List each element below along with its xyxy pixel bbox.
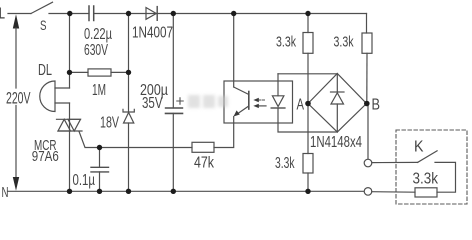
opto transistor collector diagonal <box>234 87 249 95</box>
node gate-0.1u <box>97 145 102 150</box>
resistor 3.3k upper-A <box>303 33 313 54</box>
wire gate line <box>100 147 193 149</box>
svg-text:A: A <box>297 97 305 114</box>
svg-text:47k: 47k <box>194 155 215 172</box>
svg-text:3.3k: 3.3k <box>413 171 439 188</box>
wire node A to lower resistor <box>307 104 309 154</box>
wire triac cathode to N <box>69 131 71 191</box>
wire 1M node to zener <box>128 72 130 112</box>
wire 1M right lead <box>111 71 129 73</box>
wire 220V source <box>15 28 17 178</box>
switch S blade <box>31 2 53 13</box>
neon lamp DL top electrode <box>55 87 70 89</box>
capacitor C1 0.22u plate left <box>88 6 90 21</box>
triac MCR97A6 triangle down <box>68 119 81 131</box>
node A column rail <box>305 11 310 16</box>
node N-zener <box>126 189 131 194</box>
wire B column top <box>366 14 368 34</box>
svg-text:3.3k: 3.3k <box>334 35 355 51</box>
optocoupler U1 box <box>224 81 293 123</box>
capacitor 0.1u plate top <box>91 166 109 168</box>
node N-0.1u <box>97 189 102 194</box>
neon lamp DL envelope <box>40 81 55 112</box>
opto light arrow lower <box>258 105 267 107</box>
bridge inner diode lead top <box>336 74 338 93</box>
triac MCR97A6 top bar <box>57 118 81 120</box>
svg-text:3.3k: 3.3k <box>275 155 295 172</box>
source arrow up <box>13 14 19 28</box>
neon lamp DL bottom electrode <box>55 102 70 104</box>
resistor 3.3k lower-A <box>303 154 313 174</box>
svg-text:1M: 1M <box>92 82 106 99</box>
resistor 3.3k relay <box>415 188 437 197</box>
svg-text:L: L <box>0 6 5 23</box>
wire node B down to terminal <box>367 104 368 160</box>
svg-text:97A6: 97A6 <box>32 149 59 165</box>
wire top rail mid <box>94 13 367 15</box>
relay dashed box K <box>396 130 467 204</box>
wire relay resistor to terminal <box>372 191 415 194</box>
bridge rectifier diamond <box>308 74 367 133</box>
node N-200u <box>171 189 176 194</box>
wire zener to N rail <box>128 123 130 191</box>
wire top rail <box>49 13 89 15</box>
svg-text:S: S <box>40 17 47 33</box>
svg-text:1N4148x4: 1N4148x4 <box>310 134 362 151</box>
wire column x128 top <box>128 14 130 73</box>
node DL-1M <box>67 70 72 75</box>
svg-text:B: B <box>372 97 381 114</box>
triac MCR97A6 triangle up <box>58 119 71 131</box>
svg-text:18V: 18V <box>100 115 119 132</box>
svg-text:1N4007: 1N4007 <box>132 25 173 42</box>
triac gate lead <box>79 131 100 147</box>
capacitor 0.1u plate bottom <box>91 171 109 173</box>
wire emitter lead <box>233 117 235 124</box>
wire B column <box>366 53 368 103</box>
opto transistor base bar <box>248 92 250 110</box>
wire column x173 top <box>172 14 174 109</box>
source arrow down <box>13 177 19 191</box>
capacitor C1 0.22u plate right <box>93 6 95 21</box>
svg-text:630V: 630V <box>84 42 108 59</box>
opto transistor emitter arrowhead <box>234 110 240 116</box>
wire A column top <box>307 14 309 33</box>
resistor 1M <box>88 69 111 76</box>
wire opto collector column <box>233 14 235 88</box>
diode D1 1N4007 cathode bar <box>156 7 158 21</box>
capacitor 200u plate bottom <box>166 112 183 114</box>
zener diode 18V triangle <box>124 113 134 124</box>
svg-text:3.3k: 3.3k <box>276 35 297 51</box>
resistor 3.3k upper-B <box>362 33 372 53</box>
wire lower resistor to N <box>307 173 309 191</box>
opto light arrow upper <box>259 99 265 101</box>
node D1-out <box>171 11 176 16</box>
svg-text:0.1µ: 0.1µ <box>73 172 96 189</box>
relay contact K blade <box>418 151 438 163</box>
svg-text:35V: 35V <box>142 95 163 112</box>
wire DL node to top electrode <box>69 72 71 88</box>
triac vertical lead <box>69 119 71 131</box>
opto LED anode lead <box>277 74 279 96</box>
resistor 47k <box>192 142 214 152</box>
faint watermark <box>188 95 228 108</box>
svg-text:N: N <box>2 184 9 201</box>
capacitor 200u plate top <box>166 107 183 109</box>
svg-text:220V: 220V <box>6 89 31 108</box>
zener diode 18V cathode bar <box>123 109 134 112</box>
opto transistor emitter diagonal <box>236 106 249 115</box>
terminal circle lower <box>364 188 372 196</box>
wire 200u to N rail <box>172 113 174 191</box>
wire contact fixed side <box>435 162 456 192</box>
wire column x69 from rail to DL node <box>69 14 71 73</box>
wire LED anode to bridge top <box>278 73 337 75</box>
svg-text:DL: DL <box>38 62 52 79</box>
bridge inner diode triangle <box>331 93 344 104</box>
svg-text:0.22µ: 0.22µ <box>84 26 112 43</box>
node C1-D1 <box>126 11 131 16</box>
opto LED triangle <box>272 96 284 107</box>
triac MCR97A6 bottom bar <box>58 130 82 132</box>
capacitor 200u plus sign <box>177 98 183 104</box>
wire 3.3k to node A <box>307 53 309 103</box>
node N-triac <box>67 189 72 194</box>
bridge inner diode lead bottom <box>336 104 338 132</box>
wire 1M left lead <box>70 71 89 73</box>
terminal circle upper <box>364 159 372 167</box>
opto LED cathode bar <box>271 107 285 109</box>
node A <box>305 101 311 107</box>
wire 0.1u to N rail <box>99 172 101 191</box>
wire terminal to contact <box>372 161 418 163</box>
wire L lead <box>8 13 31 15</box>
wire DL to triac <box>69 103 71 119</box>
node N-3.3k <box>305 189 310 194</box>
wire LED cathode to bridge bottom <box>278 108 337 132</box>
node S-C1 <box>67 11 72 16</box>
diode D1 1N4007 triangle <box>146 8 156 20</box>
wire 0.1u top lead <box>99 148 101 168</box>
wire N bottom rail <box>8 190 364 192</box>
svg-text:K: K <box>414 139 424 156</box>
node B <box>364 101 370 107</box>
node opto collector rail <box>231 11 236 16</box>
node 1M-zener <box>126 70 131 75</box>
wire 47k to opto emitter <box>214 123 234 148</box>
bridge inner diode bar <box>331 91 345 93</box>
